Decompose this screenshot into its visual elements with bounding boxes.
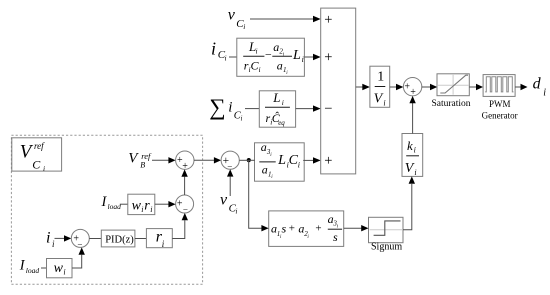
wire v_Ci up to circle C [229,177,231,196]
wire circle B to circle A (up) [184,177,186,195]
svg-text:v: v [228,6,236,23]
node i_i [46,229,55,249]
svg-text:i: i [256,47,258,56]
sum circle E [403,78,421,99]
wire w box to circle D (right and up) [72,255,82,268]
svg-text:V: V [405,161,415,176]
node V_B^ref [128,151,152,170]
svg-text:ref: ref [141,151,152,161]
svg-text:i: i [46,229,50,246]
gain box (a3i/a1i LiCi) [255,140,305,181]
svg-text:eq: eq [278,119,285,127]
gain box (Li/riCi - a2i/a1i Li) [237,38,305,76]
svg-text:i: i [228,100,232,116]
gain 1/Vi [370,66,390,107]
svg-text:PWM: PWM [489,99,511,109]
svg-text:s: s [282,221,287,235]
svg-text:w: w [132,199,142,214]
svg-text:Signum: Signum [371,242,402,253]
wire sum block to 1/Vi [356,86,363,88]
junction node [247,158,251,162]
svg-text:d: d [533,76,542,93]
svg-text:C: C [32,158,41,172]
svg-text:i: i [63,267,65,276]
svg-text:ref: ref [34,141,45,151]
wire i_i to circle D [55,237,65,239]
svg-text:a: a [261,140,267,154]
svg-text:i: i [52,239,55,249]
dashed subsystem box [11,135,202,284]
wire circle C to a3 box [239,159,255,161]
svg-text:v: v [220,191,228,208]
svg-text:i: i [302,55,304,64]
saturation block [432,74,471,109]
svg-text:∑: ∑ [209,95,225,120]
gain box w_i [47,259,73,278]
PID(z) block [101,230,135,247]
svg-text:V: V [374,91,384,106]
svg-text:i: i [150,205,152,214]
svg-text:w: w [54,261,64,276]
wire wr box to circle B [155,203,169,205]
wire I_load to wr box [120,203,128,205]
wire I_load to w box [41,267,47,269]
svg-text:L: L [277,153,286,168]
node i_Ci [211,38,227,62]
wire surface box to signum [344,227,362,229]
wire PWM to d_i [515,86,521,88]
svg-text:B: B [140,161,145,170]
svg-text:1: 1 [377,69,384,84]
wire r_i to circle B (right and up) [172,220,185,238]
svg-text:+: + [182,161,188,172]
svg-text:+: + [289,223,295,235]
wire i_Ci to gain box [229,56,237,58]
svg-text:+: + [315,223,321,235]
node d_i (output) [533,76,547,99]
svg-text:−: − [265,48,272,62]
svg-text:+: + [324,50,332,66]
svg-text:k: k [407,138,413,153]
sum block (tall rectangle) [321,8,356,174]
svg-text:−: − [324,101,332,117]
svg-text:i: i [225,54,227,63]
svg-text:a: a [277,59,283,73]
svg-text:s: s [333,230,338,244]
sum circle A [176,151,194,172]
svg-text:I: I [19,258,26,274]
wire junction down to surface box [249,160,262,228]
gain box (Li/riCeq) [259,90,295,127]
label box V_Ci^ref [12,138,62,173]
svg-text:+: + [324,153,332,169]
gain box w_i r_i [128,194,155,214]
svg-text:i: i [383,98,385,107]
svg-text:i: i [211,38,216,58]
svg-text:I: I [101,194,108,210]
svg-text:i: i [282,98,284,107]
svg-text:i: i [241,115,243,123]
svg-text:a: a [262,163,268,177]
svg-text:V: V [128,151,139,167]
svg-text:i: i [141,205,143,214]
svg-text:i: i [43,164,45,173]
svg-text:i: i [543,87,546,98]
svg-text:+: + [410,87,416,98]
wire 1/Vi to sum circle [390,86,397,88]
svg-text:L: L [272,90,280,105]
wire sum circle to saturation [422,86,431,88]
sum circle C [221,151,239,171]
svg-text:PID(z): PID(z) [105,234,134,245]
wire V_B^ref to circle A [152,159,169,161]
wire a3 box to sum block [303,159,314,161]
svg-text:i: i [414,168,416,177]
svg-text:i: i [414,146,416,155]
node sum i_Ci [209,95,242,123]
node I_load (wr row) [101,194,122,211]
wire k/V to sum circle (up) [412,103,414,134]
sum circle B [176,195,194,215]
svg-text:load: load [108,202,122,211]
gain r_i [146,229,172,249]
svg-text:load: load [26,266,40,275]
node v_Ci (below circle C) [220,191,237,215]
svg-text:Generator: Generator [482,110,518,120]
wire PID to r_i [135,238,147,240]
wire saturation to PWM [469,86,476,88]
svg-text:Saturation: Saturation [432,99,471,109]
svg-text:i: i [298,160,300,169]
wire gain box to sum block [304,56,314,58]
svg-text:−: − [183,205,188,215]
sliding surface box a1 s + a2 + a3/s [269,211,344,247]
wire Ceq box to sum block [296,108,314,110]
gain k_i/V_i [402,134,423,178]
wire circle D to PID [89,238,101,240]
node I_load (w row) [19,258,40,275]
wire circle A to circle C [194,159,214,161]
svg-text:i: i [243,22,245,31]
svg-text:a: a [273,40,279,54]
svg-text:−: − [227,161,232,171]
svg-text:L: L [292,48,301,63]
svg-text:i: i [259,65,261,74]
svg-text:r: r [144,199,150,214]
signum block [369,217,404,252]
wire v_Ci to sum block [250,18,314,20]
wire sum i_Ci to gain [245,108,259,110]
PWM generator block [482,75,518,121]
wire signum to k/V (right and up) [403,184,412,230]
sum circle D [71,229,89,249]
svg-text:+: + [324,12,332,28]
node v_Ci (top input) [228,6,245,31]
svg-text:i: i [235,207,237,216]
